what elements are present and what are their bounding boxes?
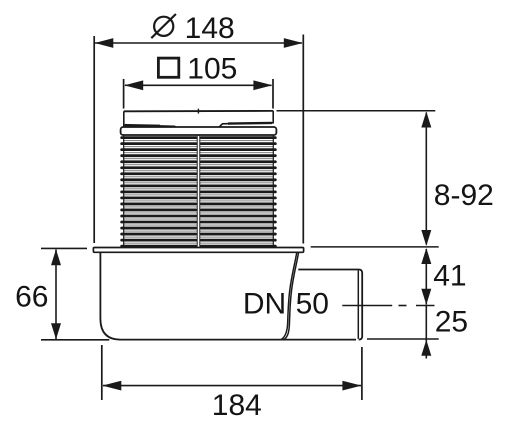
dimension 8-92 arrow down bbox=[421, 230, 431, 246]
dimension 66 bottom tick bbox=[41, 339, 109, 341]
grate cover stepped underside bbox=[124, 123, 273, 128]
dimension 105 extension line right bbox=[272, 79, 274, 109]
svg-text:25: 25 bbox=[435, 306, 468, 339]
riser ribs bbox=[120, 136, 276, 247]
dimension 184 extension line left bbox=[101, 345, 103, 400]
dimension 105 extension line left bbox=[123, 79, 125, 109]
dimension 66 line bbox=[55, 250, 57, 340]
extension line bottom right bbox=[367, 338, 439, 340]
square symbol bbox=[158, 58, 178, 77]
diameter symbol bbox=[154, 17, 173, 36]
riser core edge right bbox=[272, 136, 274, 247]
dimension 41 arrow up bbox=[421, 248, 431, 264]
outlet centreline dash long bbox=[342, 305, 392, 307]
dimension 105 line bbox=[125, 84, 272, 86]
grate cover underside thick segment bbox=[125, 124, 160, 128]
dimension D148 arrow right bbox=[284, 38, 303, 48]
dimension D148 line bbox=[95, 42, 302, 44]
dimension 184 arrow right bbox=[342, 381, 361, 391]
body bottom left corner bbox=[100, 319, 120, 340]
dimension 105 arrow left bbox=[124, 80, 143, 90]
grate cover centre tick bbox=[197, 109, 199, 114]
svg-text:41: 41 bbox=[433, 260, 466, 293]
collar frame bbox=[121, 127, 277, 135]
dimension 184 arrow left bbox=[102, 381, 121, 391]
riser centre seam right bbox=[199, 136, 201, 247]
grate cover right edge bbox=[272, 111, 274, 124]
outlet centreline dash short bbox=[399, 305, 407, 307]
outlet pipe end face bbox=[357, 270, 359, 339]
flange bbox=[93, 248, 303, 253]
grate cover top edge bbox=[124, 110, 273, 112]
svg-text:105: 105 bbox=[187, 52, 237, 85]
riser centre seam left bbox=[196, 136, 198, 247]
svg-text:184: 184 bbox=[212, 389, 262, 422]
body outlet transition curve inner bbox=[284, 252, 299, 339]
extension line flange level right bbox=[311, 246, 439, 248]
dimension D148 extension line right bbox=[302, 35, 304, 244]
svg-text:66: 66 bbox=[15, 280, 48, 313]
riser core edge left bbox=[123, 136, 125, 247]
body outlet transition curve outer bbox=[281, 252, 297, 339]
dimension 105 arrow right bbox=[253, 80, 272, 90]
outlet pipe outline bbox=[298, 270, 362, 340]
grate cover left edge bbox=[123, 111, 125, 126]
svg-text:8-92: 8-92 bbox=[434, 179, 494, 212]
dimension 66 arrow down bbox=[51, 323, 61, 339]
svg-text:DN: DN bbox=[243, 287, 286, 320]
dimension D148 arrow left bbox=[95, 38, 114, 48]
dimension 8-92 line bbox=[425, 113, 427, 245]
svg-text:148: 148 bbox=[185, 12, 235, 45]
grate cover underside thick segment right bbox=[228, 122, 272, 125]
dimension 184 extension line right bbox=[361, 347, 363, 400]
body bottom line bbox=[121, 339, 357, 341]
dimension 8-92 arrow up bbox=[421, 112, 431, 128]
dimension 41 line bbox=[425, 249, 427, 305]
svg-text:50: 50 bbox=[296, 287, 329, 320]
dimension 66 arrow up bbox=[51, 249, 61, 265]
dimension 66 top tick bbox=[41, 247, 87, 249]
dimension 25 arrow up outside bbox=[421, 340, 431, 356]
dimension 184 line bbox=[103, 385, 361, 387]
dimension 25 line bbox=[425, 306, 427, 359]
dimension D148 extension line left bbox=[93, 36, 95, 243]
body left wall bbox=[99, 252, 101, 318]
dimension 41 arrow down bbox=[421, 289, 431, 305]
extension line top right bbox=[277, 110, 436, 112]
outlet centreline tick bbox=[416, 305, 435, 307]
